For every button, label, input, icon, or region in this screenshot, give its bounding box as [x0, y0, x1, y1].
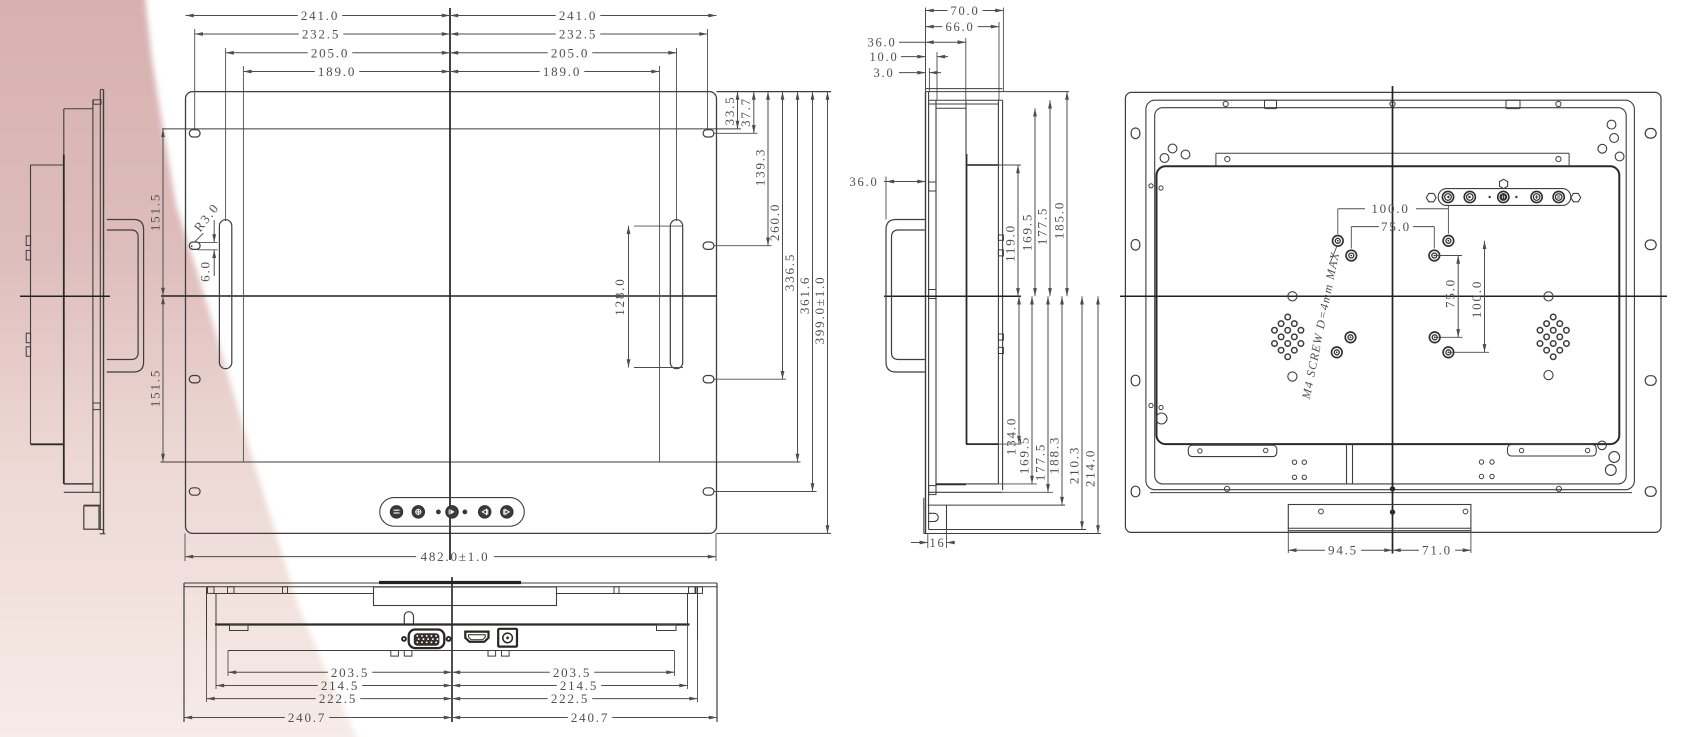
svg-text:139.3: 139.3 — [752, 148, 767, 186]
svg-text:361.6: 361.6 — [797, 276, 812, 314]
svg-text:241.0: 241.0 — [559, 8, 597, 23]
svg-text:16: 16 — [929, 536, 945, 550]
svg-text:119.0: 119.0 — [1002, 224, 1017, 262]
svg-text:177.5: 177.5 — [1032, 443, 1047, 481]
svg-text:10.0: 10.0 — [869, 50, 898, 64]
svg-text:100.0: 100.0 — [1371, 201, 1409, 216]
svg-text:336.5: 336.5 — [782, 253, 797, 291]
svg-text:100.0: 100.0 — [1469, 280, 1484, 318]
svg-text:240.7: 240.7 — [288, 710, 326, 725]
svg-text:36.0: 36.0 — [849, 175, 878, 189]
svg-text:169.5: 169.5 — [1019, 213, 1034, 251]
svg-text:205.0: 205.0 — [551, 45, 589, 60]
svg-text:151.5: 151.5 — [147, 369, 162, 407]
svg-text:222.5: 222.5 — [551, 691, 589, 706]
svg-text:232.5: 232.5 — [302, 26, 340, 41]
svg-text:3.0: 3.0 — [873, 66, 894, 80]
svg-text:482.0±1.0: 482.0±1.0 — [421, 549, 490, 564]
svg-text:36.0: 36.0 — [867, 36, 896, 50]
svg-text:75.0: 75.0 — [1381, 219, 1411, 234]
svg-text:75.0: 75.0 — [1443, 278, 1458, 308]
svg-text:128.0: 128.0 — [612, 277, 627, 315]
svg-text:210.3: 210.3 — [1066, 446, 1081, 484]
svg-text:232.5: 232.5 — [559, 26, 597, 41]
svg-text:189.0: 189.0 — [543, 64, 581, 79]
svg-text:399.0±1.0: 399.0±1.0 — [812, 276, 827, 345]
svg-text:260.0: 260.0 — [767, 203, 782, 241]
svg-text:70.0: 70.0 — [950, 4, 979, 18]
svg-text:37.7: 37.7 — [738, 97, 753, 127]
svg-text:169.5: 169.5 — [1016, 436, 1031, 474]
svg-text:240.7: 240.7 — [571, 710, 609, 725]
svg-text:189.0: 189.0 — [318, 64, 356, 79]
svg-text:6.0: 6.0 — [198, 260, 213, 282]
svg-text:214.0: 214.0 — [1082, 449, 1097, 487]
svg-text:185.0: 185.0 — [1051, 201, 1066, 239]
svg-text:222.5: 222.5 — [319, 691, 357, 706]
svg-text:177.5: 177.5 — [1034, 207, 1049, 245]
svg-text:66.0: 66.0 — [945, 20, 974, 34]
svg-text:94.5: 94.5 — [1328, 543, 1358, 558]
svg-text:241.0: 241.0 — [301, 8, 339, 23]
svg-text:188.3: 188.3 — [1046, 436, 1061, 474]
svg-text:205.0: 205.0 — [311, 45, 349, 60]
svg-text:151.5: 151.5 — [147, 193, 162, 231]
svg-text:33.5: 33.5 — [722, 96, 737, 126]
svg-text:71.0: 71.0 — [1422, 543, 1452, 558]
